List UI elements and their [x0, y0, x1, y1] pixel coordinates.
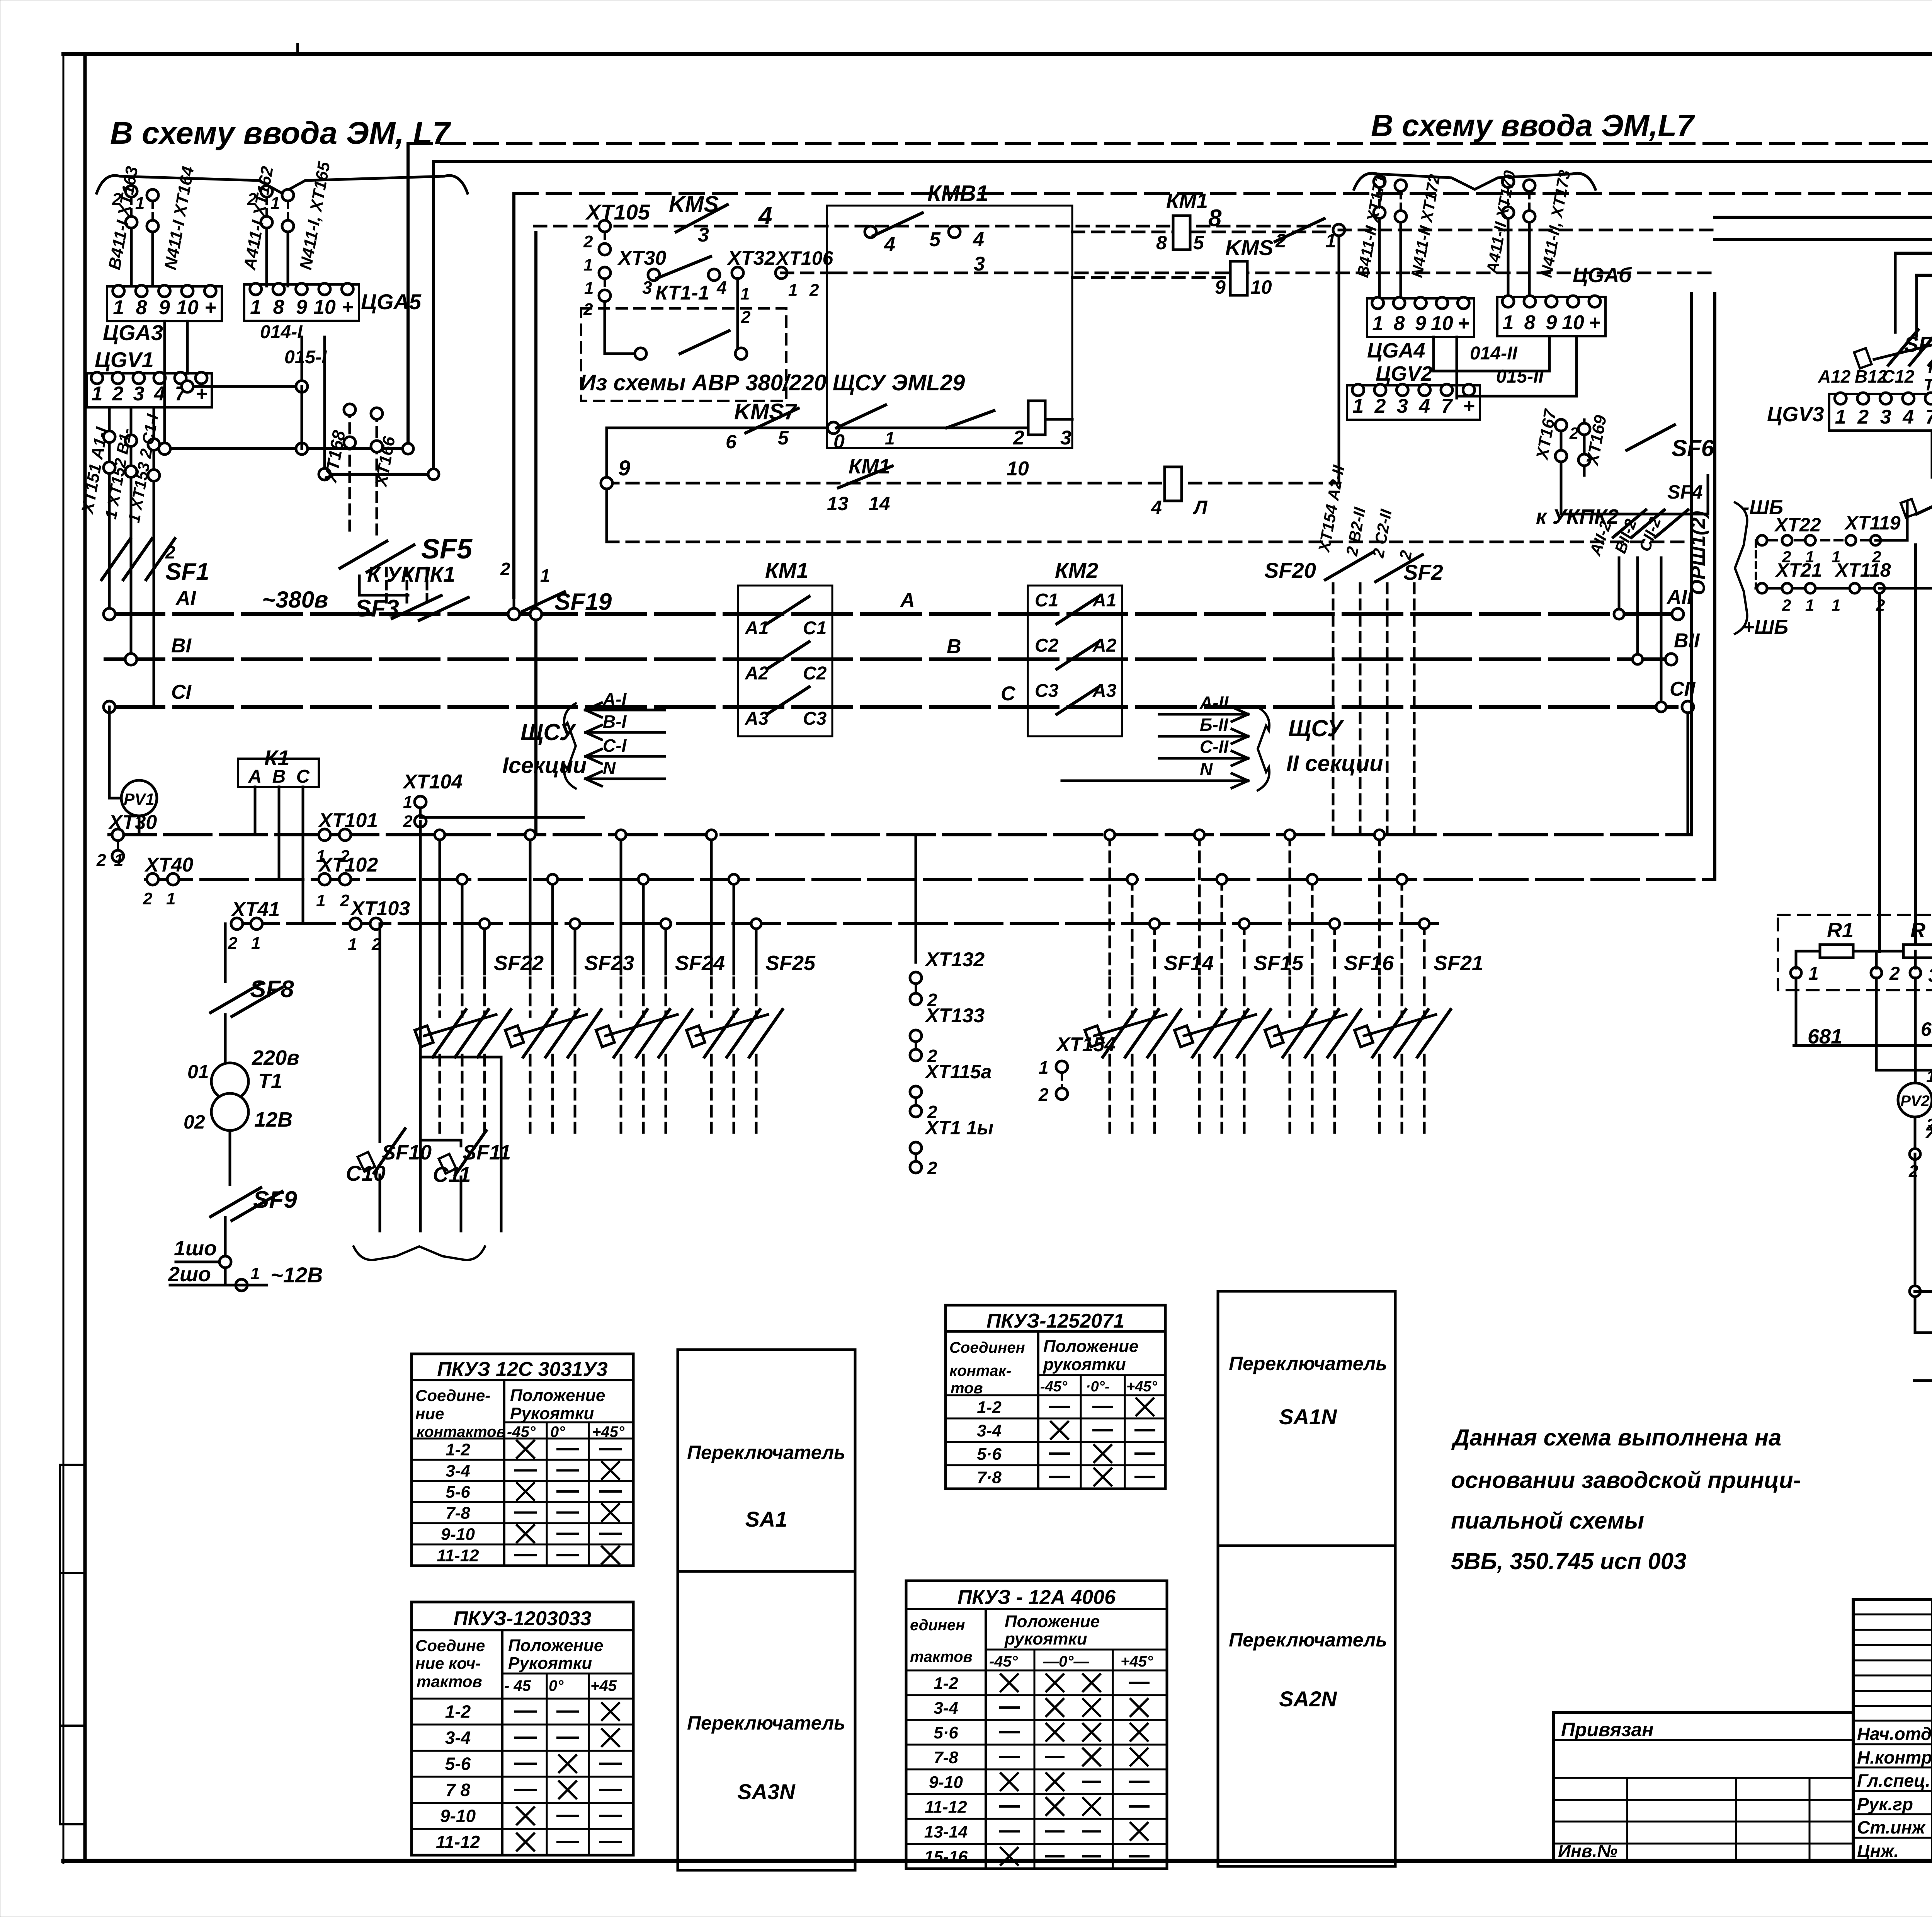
svg-text:КМ2: КМ2 [1055, 558, 1098, 582]
svg-text:ХТ30: ХТ30 [617, 247, 666, 269]
svg-text:Переключатель: Переключатель [687, 1712, 845, 1734]
svg-text:4: 4 [1902, 406, 1914, 428]
svg-text:2: 2 [1569, 424, 1578, 442]
svg-text:1: 1 [1808, 964, 1819, 984]
svg-text:SA1: SA1 [745, 1507, 787, 1531]
svg-text:SF24: SF24 [675, 952, 725, 975]
svg-text:ХТ32: ХТ32 [726, 247, 776, 269]
svg-text:КТ1-1: КТ1-1 [655, 282, 709, 304]
svg-text:4: 4 [1151, 497, 1162, 518]
svg-text:SF20: SF20 [1264, 558, 1316, 582]
svg-text:1: 1 [1926, 1067, 1932, 1086]
svg-text:1: 1 [114, 851, 123, 870]
svg-text:Т°: Т° [1923, 375, 1932, 394]
svg-text:3: 3 [1397, 395, 1408, 417]
svg-text:SF25: SF25 [765, 952, 816, 975]
svg-text:10: 10 [176, 296, 199, 319]
svg-text:3-4: 3-4 [934, 1699, 958, 1718]
svg-text:11-12: 11-12 [925, 1798, 967, 1817]
svg-text:8: 8 [1208, 205, 1222, 232]
svg-text:1: 1 [92, 383, 103, 405]
svg-text:+: + [1589, 312, 1600, 334]
svg-text:10: 10 [313, 296, 336, 318]
svg-text:SF12: SF12 [1904, 332, 1932, 356]
svg-text:2: 2 [1908, 1162, 1918, 1181]
svg-text:SF6: SF6 [1672, 435, 1714, 461]
svg-text:1: 1 [885, 428, 895, 448]
svg-text:2: 2 [228, 934, 238, 953]
svg-text:ХТ106: ХТ106 [775, 247, 834, 269]
svg-text:ХТ21: ХТ21 [1775, 559, 1822, 581]
svg-text:Цнж.: Цнж. [1857, 1841, 1899, 1861]
svg-text:SF8: SF8 [250, 976, 294, 1003]
svg-text:015-II: 015-II [1496, 366, 1544, 387]
svg-text:1: 1 [403, 793, 412, 812]
svg-text:2: 2 [1275, 230, 1286, 252]
svg-text:1: 1 [1805, 596, 1814, 614]
svg-text:С10: С10 [346, 1161, 386, 1185]
svg-text:Б-II: Б-II [1200, 715, 1229, 735]
svg-text:С: С [1001, 683, 1016, 705]
svg-text:Переключатель: Переключатель [1229, 1353, 1387, 1374]
svg-text:С1: С1 [803, 618, 827, 638]
svg-text:ЦGА4: ЦGА4 [1367, 339, 1425, 362]
svg-text:Нач.отд.: Нач.отд. [1857, 1724, 1932, 1744]
svg-text:Т1: Т1 [258, 1069, 282, 1093]
svg-text:1: 1 [583, 255, 593, 274]
svg-text:1: 1 [113, 296, 124, 319]
svg-text:SF11: SF11 [463, 1141, 511, 1164]
svg-text:С2: С2 [1035, 635, 1059, 656]
svg-text:Из схемы АВР 380/220 ЩСУ ЭМL2: Из схемы АВР 380/220 ЩСУ ЭМL29 [580, 370, 965, 395]
svg-text:3: 3 [133, 383, 145, 405]
svg-text:6: 6 [726, 431, 737, 453]
svg-text:9: 9 [1546, 312, 1557, 334]
svg-text:ХТ105: ХТ105 [585, 200, 650, 224]
svg-text:ХТ1 1ы: ХТ1 1ы [924, 1117, 993, 1139]
svg-text:3: 3 [1060, 427, 1071, 449]
svg-text:13: 13 [827, 493, 849, 514]
svg-text:8: 8 [273, 296, 284, 318]
svg-text:В схему ввода ЭМ, L7: В схему ввода ЭМ, L7 [110, 116, 451, 151]
svg-text:R: R [1910, 919, 1925, 942]
svg-text:АI: АI [175, 587, 197, 609]
svg-text:2: 2 [1374, 395, 1386, 417]
svg-text:II секции: II секции [1286, 751, 1383, 776]
svg-text:10: 10 [1007, 458, 1029, 480]
svg-text:ХТ118: ХТ118 [1834, 559, 1891, 581]
svg-text:0: 0 [833, 431, 845, 453]
svg-text:Iсекции: Iсекции [502, 753, 587, 778]
svg-text:2: 2 [403, 812, 413, 831]
svg-text:5-6: 5-6 [446, 1483, 470, 1502]
svg-text:3: 3 [1928, 965, 1932, 986]
svg-text:+ШБ: +ШБ [1743, 616, 1788, 638]
svg-text:Положение: Положение [508, 1636, 603, 1655]
svg-text:9: 9 [159, 296, 170, 319]
svg-text:7 8: 7 8 [446, 1780, 470, 1800]
svg-text:SA2N: SA2N [1279, 1687, 1337, 1711]
svg-text:ПКУЗ - 12А 4006: ПКУЗ - 12А 4006 [957, 1586, 1116, 1609]
svg-text:-45°: -45° [1040, 1379, 1068, 1395]
svg-text:Ст.инж: Ст.инж [1857, 1817, 1926, 1837]
svg-text:0°: 0° [549, 1677, 564, 1694]
svg-text:9: 9 [296, 296, 307, 318]
svg-text:1: 1 [584, 279, 594, 298]
svg-text:SF5: SF5 [421, 534, 473, 565]
svg-text:тактов: тактов [417, 1672, 482, 1691]
svg-text:А1: А1 [745, 618, 769, 638]
svg-text:4: 4 [973, 228, 984, 251]
svg-text:Соединен: Соединен [949, 1339, 1025, 1356]
svg-text:-45°: -45° [989, 1653, 1018, 1670]
svg-text:1: 1 [1835, 406, 1846, 428]
svg-text:9: 9 [1415, 312, 1426, 335]
svg-text:2: 2 [143, 889, 153, 908]
svg-text:В: В [272, 766, 286, 787]
svg-text:Переключатель: Переключатель [687, 1442, 845, 1463]
svg-text:С3: С3 [803, 708, 827, 729]
svg-text:ХТ115а: ХТ115а [924, 1061, 992, 1083]
svg-text:ВI: ВI [171, 635, 192, 657]
svg-text:ЦGV1: ЦGV1 [95, 347, 154, 372]
svg-text:11-12: 11-12 [437, 1546, 479, 1565]
svg-text:014-II: 014-II [1470, 343, 1518, 364]
svg-text:ХТ43: ХТ43 [1925, 1121, 1932, 1142]
svg-text:SF14: SF14 [1164, 952, 1214, 975]
svg-text:SA1N: SA1N [1279, 1405, 1337, 1429]
svg-text:9: 9 [1215, 276, 1226, 298]
svg-text:1-2: 1-2 [445, 1702, 471, 1722]
svg-text:КМ1: КМ1 [765, 558, 808, 582]
svg-text:5: 5 [778, 427, 789, 449]
svg-text:1: 1 [250, 1264, 260, 1283]
svg-text:1: 1 [348, 935, 357, 954]
svg-text:SF1: SF1 [165, 558, 209, 585]
svg-text:1: 1 [540, 565, 550, 586]
svg-text:Данная схема выполнена на: Данная схема выполнена на [1451, 1425, 1781, 1451]
svg-text:7-8: 7-8 [446, 1504, 470, 1523]
svg-text:2: 2 [927, 1158, 937, 1178]
svg-text:·0°-: ·0°- [1086, 1379, 1110, 1395]
svg-text:С-II: С-II [1200, 737, 1229, 757]
svg-text:тов: тов [951, 1380, 983, 1397]
svg-text:10: 10 [1562, 312, 1584, 334]
svg-text:ХТ119: ХТ119 [1844, 512, 1901, 534]
svg-text:ХТ104: ХТ104 [402, 771, 463, 793]
svg-text:ОРШ1(2): ОРШ1(2) [1687, 511, 1709, 595]
svg-text:5·6: 5·6 [977, 1445, 1002, 1464]
svg-text:С12: С12 [1882, 366, 1915, 386]
svg-text:~12В: ~12В [270, 1263, 323, 1287]
svg-text:контак-: контак- [949, 1362, 1011, 1379]
svg-text:1-2: 1-2 [934, 1674, 958, 1693]
svg-text:4: 4 [1418, 395, 1430, 417]
svg-text:Соедине-: Соедине- [415, 1386, 490, 1405]
svg-text:7-8: 7-8 [934, 1748, 958, 1767]
svg-text:А3: А3 [745, 708, 769, 729]
svg-text:5-6: 5-6 [445, 1754, 471, 1774]
svg-text:8: 8 [1394, 312, 1405, 335]
svg-text:единен: единен [910, 1617, 965, 1634]
svg-text:2: 2 [1889, 964, 1900, 984]
svg-text:А2: А2 [745, 663, 769, 684]
svg-text:8: 8 [1524, 312, 1536, 334]
svg-text:Н.контр.: Н.контр. [1857, 1747, 1932, 1767]
svg-text:PV2: PV2 [1900, 1093, 1930, 1110]
svg-text:+: + [204, 296, 216, 319]
svg-text:1: 1 [1039, 1057, 1049, 1078]
svg-text:ХТ132: ХТ132 [924, 948, 985, 971]
svg-text:А2: А2 [1092, 635, 1117, 656]
svg-text:2: 2 [1013, 427, 1024, 449]
svg-text:12В: 12В [254, 1108, 293, 1131]
svg-text:SF16: SF16 [1344, 952, 1394, 975]
svg-text:+: + [1458, 312, 1469, 335]
svg-text:10: 10 [1250, 276, 1272, 298]
svg-text:ПКУЗ-1203033: ПКУЗ-1203033 [453, 1607, 591, 1630]
svg-text:В схему ввода ЭМ,L7: В схему ввода ЭМ,L7 [1371, 108, 1695, 143]
svg-text:KMS: KMS [1225, 235, 1273, 260]
svg-text:ние: ние [415, 1405, 444, 1423]
svg-text:2: 2 [96, 851, 106, 870]
svg-text:Инв.№: Инв.№ [1558, 1841, 1617, 1861]
svg-text:+45°: +45° [1126, 1379, 1157, 1395]
svg-text:1: 1 [166, 889, 175, 908]
svg-text:Рукоятки: Рукоятки [510, 1404, 594, 1423]
svg-text:2: 2 [809, 281, 819, 300]
svg-text:I>: I> [1928, 358, 1932, 377]
svg-text:3: 3 [642, 278, 652, 298]
svg-text:А-II: А-II [1199, 693, 1229, 713]
svg-text:3-4: 3-4 [977, 1422, 1002, 1440]
svg-text:ЦGАб: ЦGАб [1573, 264, 1632, 287]
svg-text:3-4: 3-4 [445, 1728, 471, 1748]
svg-text:~380в: ~380в [262, 587, 328, 613]
svg-text:1: 1 [316, 891, 325, 910]
svg-text:2: 2 [583, 232, 593, 251]
svg-text:- 45: - 45 [504, 1677, 531, 1694]
svg-text:1: 1 [740, 284, 750, 303]
svg-text:Положение: Положение [1005, 1612, 1100, 1631]
svg-text:SF23: SF23 [584, 952, 634, 975]
svg-text:9-10: 9-10 [929, 1773, 963, 1792]
svg-text:2шо: 2шо [168, 1263, 211, 1286]
svg-text:1-2: 1-2 [977, 1398, 1002, 1417]
svg-text:5: 5 [929, 228, 941, 251]
svg-text:А1: А1 [1092, 590, 1116, 611]
svg-text:Гл.спец.: Гл.спец. [1857, 1771, 1930, 1791]
svg-text:2: 2 [500, 559, 510, 579]
svg-text:4: 4 [716, 278, 727, 298]
svg-text:2: 2 [340, 891, 350, 910]
svg-text:+45: +45 [590, 1677, 617, 1694]
svg-text:рукоятки: рукоятки [1043, 1355, 1126, 1374]
svg-text:пиальной схемы: пиальной схемы [1451, 1508, 1644, 1534]
svg-text:ЦGV3: ЦGV3 [1767, 403, 1824, 426]
svg-text:ХТ22: ХТ22 [1774, 514, 1821, 536]
svg-text:5·6: 5·6 [934, 1723, 958, 1742]
svg-text:2: 2 [741, 308, 751, 327]
svg-text:Л: Л [1193, 497, 1208, 518]
svg-text:ние коч-: ние коч- [415, 1654, 481, 1672]
svg-text:3: 3 [698, 224, 709, 246]
svg-text:КМВ1: КМВ1 [927, 181, 988, 206]
svg-text:SF19: SF19 [554, 589, 612, 615]
svg-text:ВII: ВII [1674, 630, 1700, 652]
svg-text:рукоятки: рукоятки [1004, 1629, 1087, 1648]
svg-text:ЩСУ: ЩСУ [1288, 715, 1344, 741]
svg-text:+: + [1463, 395, 1475, 417]
svg-text:14: 14 [869, 493, 890, 514]
svg-text:8: 8 [1156, 232, 1167, 254]
svg-text:2: 2 [1857, 406, 1869, 428]
svg-text:SA3N: SA3N [737, 1779, 796, 1804]
svg-text:С-I: С-I [603, 735, 627, 756]
svg-text:1шо: 1шо [174, 1237, 217, 1260]
svg-text:—0°—: —0°— [1043, 1653, 1089, 1670]
svg-text:Рукоятки: Рукоятки [508, 1654, 592, 1673]
svg-text:ПКУЗ 12С 3031У3: ПКУЗ 12С 3031У3 [437, 1358, 607, 1381]
svg-text:Соедине: Соедине [415, 1636, 485, 1655]
svg-text:Переключатель: Переключатель [1229, 1629, 1387, 1651]
svg-text:1: 1 [788, 281, 798, 300]
svg-text:1: 1 [1372, 312, 1383, 335]
svg-text:2: 2 [1038, 1084, 1049, 1105]
svg-text:СI: СI [171, 681, 192, 703]
svg-text:ХТ133: ХТ133 [924, 1004, 985, 1027]
svg-text:тактов: тактов [910, 1648, 973, 1665]
svg-text:ЦGА5: ЦGА5 [361, 289, 422, 314]
svg-text:2: 2 [1782, 596, 1791, 614]
svg-text:2: 2 [165, 542, 175, 562]
svg-text:7·8: 7·8 [977, 1468, 1002, 1487]
svg-text:В: В [947, 635, 961, 658]
svg-text:С3: С3 [1035, 681, 1059, 701]
svg-text:+45°: +45° [1121, 1653, 1153, 1670]
svg-text:SF21: SF21 [1434, 952, 1483, 975]
svg-text:4: 4 [884, 233, 895, 256]
svg-text:Рук.гр: Рук.гр [1857, 1794, 1913, 1814]
svg-text:SF4: SF4 [1667, 481, 1703, 503]
svg-text:КМ1: КМ1 [1166, 189, 1208, 213]
svg-text:5: 5 [1193, 232, 1204, 254]
svg-text:N: N [1200, 759, 1213, 779]
svg-text:R1: R1 [1827, 919, 1854, 942]
svg-text:Положение: Положение [1043, 1337, 1138, 1356]
svg-text:В-I: В-I [603, 712, 627, 732]
svg-text:2: 2 [112, 383, 124, 405]
svg-text:9: 9 [618, 456, 630, 480]
svg-text:1: 1 [1503, 312, 1514, 334]
svg-text:А12: А12 [1818, 366, 1851, 386]
svg-text:С: С [296, 766, 310, 787]
svg-text:3: 3 [1880, 406, 1891, 428]
svg-text:А-I: А-I [602, 689, 627, 709]
svg-text:3: 3 [974, 253, 985, 275]
svg-text:3-4: 3-4 [446, 1462, 470, 1481]
svg-text:А: А [248, 766, 262, 787]
svg-text:9-10: 9-10 [440, 1806, 476, 1826]
svg-text:Привязан: Привязан [1561, 1719, 1654, 1740]
svg-text:5ВБ, 350.745 исп 003: 5ВБ, 350.745 исп 003 [1451, 1548, 1687, 1574]
svg-text:С11: С11 [433, 1162, 471, 1187]
svg-text:10: 10 [1431, 312, 1453, 335]
svg-text:+: + [342, 296, 353, 318]
svg-text:01: 01 [187, 1061, 209, 1083]
svg-text:8: 8 [136, 296, 147, 319]
svg-text:N: N [603, 758, 616, 778]
svg-text:SF22: SF22 [494, 952, 544, 975]
svg-text:ЦGV2: ЦGV2 [1376, 362, 1432, 385]
svg-text:С1: С1 [1035, 590, 1058, 611]
svg-text:SF15: SF15 [1253, 952, 1304, 975]
svg-text:ПКУЗ-1252071: ПКУЗ-1252071 [986, 1310, 1124, 1332]
svg-text:02: 02 [184, 1111, 205, 1133]
svg-text:685: 685 [1921, 1018, 1932, 1040]
svg-text:ХТ103: ХТ103 [350, 897, 410, 920]
svg-text:014-I: 014-I [260, 322, 303, 342]
svg-text:7: 7 [1925, 406, 1932, 428]
svg-text:Положение: Положение [510, 1386, 605, 1405]
svg-text:015-I: 015-I [284, 347, 327, 368]
svg-text:К УКПК1: К УКПК1 [367, 562, 455, 586]
svg-text:9-10: 9-10 [441, 1525, 475, 1544]
svg-text:4: 4 [758, 202, 772, 230]
svg-text:SF10: SF10 [382, 1141, 432, 1164]
svg-text:SF9: SF9 [253, 1187, 297, 1213]
svg-text:А: А [900, 589, 915, 611]
svg-text:1-2: 1-2 [446, 1440, 470, 1459]
svg-text:1: 1 [250, 296, 261, 318]
svg-text:15-16: 15-16 [924, 1847, 968, 1866]
svg-text:ЦGА3: ЦGА3 [103, 320, 163, 345]
svg-text:13-14: 13-14 [924, 1823, 968, 1842]
svg-text:1: 1 [1352, 395, 1364, 417]
svg-text:1: 1 [1832, 596, 1840, 614]
svg-text:11-12: 11-12 [436, 1832, 480, 1852]
svg-text:1: 1 [251, 934, 260, 953]
svg-text:PV1: PV1 [124, 790, 154, 808]
svg-text:А3: А3 [1092, 681, 1117, 701]
svg-text:220в: 220в [252, 1046, 299, 1069]
svg-text:С2: С2 [803, 663, 827, 684]
svg-text:7: 7 [1441, 395, 1453, 417]
svg-text:основании заводской принци-: основании заводской принци- [1451, 1467, 1801, 1493]
